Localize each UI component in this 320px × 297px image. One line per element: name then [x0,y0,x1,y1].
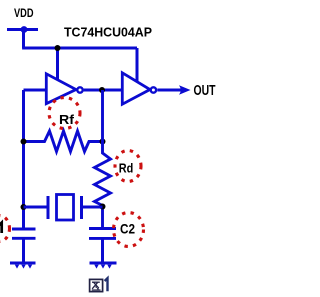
resistor Rf label [59,112,75,127]
highlight circle around C2 [114,213,144,247]
resistor Rf [24,131,103,152]
capacitor C1 label (clipped at left edge) [0,223,2,233]
junction at U1A output node [99,87,105,93]
wire C2 to ground [101,238,104,263]
capacitor C2 plates [89,229,116,239]
caption figure glyph 图 [90,279,103,291]
highlight circle around C1 (clipped at left edge) [0,216,10,242]
highlight circle around Rf [49,98,80,129]
inverter U1A triangle [46,74,76,104]
wire U1A output to U1B input [84,89,122,92]
node OUT label [194,83,216,99]
svg-text:Rf: Rf [59,112,75,127]
ground symbol right [90,263,117,269]
junction Rf right [100,139,106,145]
crystal X1 body [57,195,74,221]
resistor Rd label [119,161,134,176]
junction Rf left [21,139,27,145]
svg-text:OUT: OUT [194,83,216,99]
wire C1 to ground [22,238,25,263]
inverter U1B triangle [122,73,150,104]
inverter U1B output bubble [151,87,156,92]
wire left feedback vertical [22,90,25,230]
svg-text:C2: C2 [120,221,135,237]
wire VDD rail: down from terminal, across top, down to U1B [22,30,137,82]
svg-text:TC74HCU04AP: TC74HCU04AP [64,26,152,40]
IC part number label TC74HCU04AP [64,26,152,40]
wire U1B output [157,89,184,92]
junction crystal right / Rd bottom [100,204,106,210]
resistor Rd with vertical wire from output node to crystal node [95,90,111,228]
junction crystal left [21,204,27,210]
caption figure number 1 [105,278,108,291]
wire crystal left lead [24,206,47,209]
highlight circle around Rd [115,151,141,182]
arrow to OUT [179,85,191,95]
svg-text:VDD: VDD [14,6,34,20]
inverter U1A output bubble [77,87,82,92]
wire power drop to U1A [56,48,59,81]
junction at rail / U1A drop [55,45,61,51]
VDD terminal dot [21,26,28,33]
wire U1A input [24,89,47,92]
capacitor C1 plates [12,229,36,238]
ground symbol left [10,263,36,269]
svg-text:Rd: Rd [119,161,134,176]
VDD terminal stub wire [7,28,38,31]
wire crystal right lead [83,206,103,209]
crystal X1 plates [48,196,82,219]
capacitor C2 label [120,221,135,237]
power net VDD label [14,6,34,20]
